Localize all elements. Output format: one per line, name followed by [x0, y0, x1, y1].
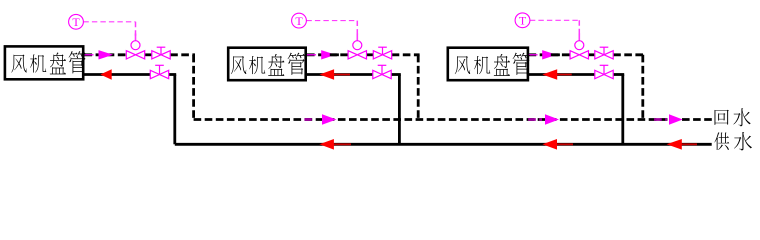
- svg-text:T: T: [72, 15, 80, 29]
- svg-text:T: T: [519, 14, 527, 28]
- svg-text:T: T: [295, 14, 303, 28]
